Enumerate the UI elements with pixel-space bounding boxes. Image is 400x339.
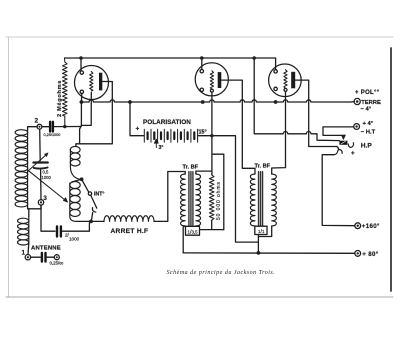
pin V3 grid bottom bbox=[284, 88, 287, 91]
wire bus end to TERRE bbox=[351, 101, 354, 103]
capacitor C2 variable 0,5/1000 bbox=[33, 161, 47, 163]
plate V1 bar bbox=[99, 73, 102, 91]
node choke left junction bbox=[89, 220, 93, 224]
resistor R1 2 Megohms grid leak bbox=[63, 58, 68, 127]
node L3-L4-switch junction bbox=[80, 177, 84, 181]
node bus-V1 filament junction bbox=[80, 100, 84, 104]
capacitor C1 grid condenser 0,25/1000 bbox=[50, 122, 53, 132]
node junction top rail to V2 filament bbox=[200, 56, 204, 60]
coil L4 grid coil bbox=[70, 179, 82, 221]
wire jack feed from top rail with hops bbox=[254, 58, 339, 141]
coil L3 tickler bbox=[70, 144, 81, 180]
wire C2 to terminal 3 bbox=[40, 170, 42, 200]
battery POLARISATION cells bbox=[144, 129, 197, 142]
wire V2 filament drop bbox=[201, 58, 203, 70]
switch INT lever and contact bbox=[91, 195, 97, 212]
svg-text:INT°: INT° bbox=[94, 192, 104, 198]
pin V2 filament bottom bbox=[200, 88, 203, 91]
node battery wire crosses grid2 bbox=[210, 134, 213, 137]
transformer TR1 Tr.BF core bbox=[188, 171, 194, 226]
jack HP lower contact hook bbox=[337, 147, 339, 150]
svg-text:3: 3 bbox=[43, 195, 47, 202]
wire V3 grid down to TR2 secondary bbox=[272, 91, 286, 174]
resistor R2 50000 ohms bbox=[209, 175, 214, 221]
svg-text:2 Mégohms: 2 Mégohms bbox=[57, 80, 63, 117]
coil L1 antenna secondary bbox=[15, 130, 28, 207]
wire L1 bottom to terminal 3 bbox=[28, 205, 41, 209]
pin V1 filament top bbox=[80, 71, 83, 74]
wire choke to TR1 primary top bbox=[154, 172, 185, 222]
triode V2 envelope bbox=[195, 63, 228, 96]
svg-text:TERRE: TERRE bbox=[361, 100, 381, 106]
svg-text:1000: 1000 bbox=[42, 175, 52, 180]
svg-text:POLARISATION: POLARISATION bbox=[143, 119, 191, 126]
wire L2 top lead bbox=[28, 209, 30, 217]
svg-text:0,25/1000: 0,25/1000 bbox=[44, 133, 61, 137]
wire L4 bottom to node bbox=[77, 220, 105, 222]
svg-text:1: 1 bbox=[22, 250, 26, 257]
wire R2 bottom and TR1 secondary bottom bbox=[196, 220, 224, 229]
svg-text:2: 2 bbox=[35, 118, 39, 125]
wire earth bus y=102 with hops bbox=[81, 100, 350, 102]
node junction top rail to V1 filament bbox=[79, 56, 83, 60]
pin V3 filament bottom bbox=[274, 87, 277, 90]
svg-text:+: + bbox=[136, 126, 140, 133]
svg-text:Schéma de principe du Jackson: Schéma de principe du Jackson Trois. bbox=[167, 270, 276, 276]
pin V1 filament bottom bbox=[80, 90, 83, 93]
svg-text:+: + bbox=[351, 150, 355, 157]
grid V2 zigzag bbox=[210, 71, 213, 89]
wire V3 filament drop bbox=[275, 58, 277, 70]
node R1 bottom junction bbox=[63, 125, 66, 128]
transformer TR2 secondary winding bbox=[272, 174, 277, 226]
wire terminal2 down to variable capacitor bbox=[39, 129, 42, 161]
terminal 2 binding post bbox=[37, 124, 42, 129]
plate V3 bar bbox=[291, 72, 295, 89]
svg-text:3°: 3° bbox=[159, 145, 164, 151]
wire battery plus15 to TR2 bottom riser bbox=[198, 136, 259, 242]
wire terminal1 to C4 bbox=[31, 256, 41, 258]
transformer TR2 Tr.BF core bbox=[258, 171, 264, 226]
wire switch to bottom node bbox=[91, 213, 92, 222]
switch INT pivot bbox=[82, 179, 89, 192]
wire HT80 rail bbox=[183, 252, 355, 254]
svg-text:ANTENNE: ANTENNE bbox=[31, 246, 61, 252]
svg-text:0,5: 0,5 bbox=[43, 170, 49, 175]
wire V1 filament drop bbox=[80, 58, 82, 71]
wire TR1 secondary top to grid2 bbox=[196, 171, 212, 174]
node bus-battery junction bbox=[128, 100, 132, 104]
ratio box TR1 1/3,5 bbox=[186, 226, 200, 235]
node junction top rail to jack feed bbox=[252, 56, 256, 60]
jack HP plug body bbox=[339, 141, 347, 145]
pin V2 filament top bbox=[200, 70, 203, 73]
wire terminal3 down to C3 bbox=[41, 205, 55, 231]
wire grid node to grid condenser bbox=[54, 126, 81, 128]
svg-text:− 4°: − 4° bbox=[361, 106, 372, 112]
transformer TR2 primary winding bbox=[250, 174, 255, 226]
svg-text:15°: 15° bbox=[199, 130, 207, 136]
wire +4 terminal to jack tip bbox=[323, 127, 354, 135]
grid V3 zigzag bbox=[284, 70, 287, 89]
wire branch grid2 node to TR1 secondary bottom riser bbox=[212, 154, 224, 229]
svg-text:+ 4°: + 4° bbox=[363, 121, 374, 127]
wire C4 to antenna post bbox=[47, 256, 54, 258]
svg-text:+160°: +160° bbox=[362, 223, 380, 230]
svg-text:0,25/00: 0,25/00 bbox=[50, 261, 64, 266]
plate V2 bar bbox=[218, 72, 222, 88]
pin V3 filament top bbox=[274, 70, 277, 73]
capacitor C3 2/1000 bbox=[57, 226, 61, 236]
wire grid node down to tickler node bbox=[80, 126, 81, 144]
arrow jack tip bbox=[342, 135, 346, 139]
terminal +80 bbox=[355, 251, 361, 257]
wire V2 grid down to R2 top bbox=[211, 92, 213, 175]
inductor ARRET H.F choke bbox=[104, 216, 154, 222]
wire V1 plate to tickler (feedback) bbox=[76, 82, 112, 147]
terminal 3 binding post bbox=[38, 200, 43, 205]
arrow coupling adjust toward L4 bbox=[29, 171, 65, 200]
svg-text:− H.T: − H.T bbox=[361, 130, 376, 136]
svg-text:H.P: H.P bbox=[361, 142, 373, 149]
wire V1 grid down to grid node bbox=[81, 93, 91, 126]
wire filament top rail bbox=[65, 57, 276, 59]
ratio box TR2 1/1 bbox=[255, 226, 267, 234]
wire L2 bottom to terminal 1 bbox=[27, 243, 30, 255]
coil L2 antenna primary bbox=[18, 217, 29, 245]
wire bus to battery plus bbox=[130, 102, 144, 136]
transformer TR1 secondary winding bbox=[196, 174, 201, 226]
svg-text:1000: 1000 bbox=[69, 237, 80, 242]
pin V2 grid bottom bbox=[210, 89, 213, 92]
wire jack lower contact to +160 terminal bbox=[322, 155, 355, 226]
svg-text:Tr. BF: Tr. BF bbox=[255, 163, 271, 169]
wire V3 plate down to jack lower contact bbox=[295, 80, 337, 146]
terminal +4 -HT bbox=[354, 124, 360, 130]
node bus-V3 filament junction bbox=[274, 100, 278, 104]
wire V2 plate to TR2 primary bbox=[221, 80, 255, 174]
terminal +160 bbox=[355, 223, 361, 229]
wire V1 filament bottom to bus and grid node bbox=[80, 94, 82, 127]
wire terminal 2 to L1 top bbox=[28, 127, 37, 130]
triode V3 envelope bbox=[269, 64, 302, 97]
wire TR2 winding bottoms to rail bbox=[255, 226, 272, 253]
node rail TR2 junction bbox=[257, 251, 261, 255]
arrow of C2 bbox=[28, 155, 47, 172]
svg-text:ARRET H.F: ARRET H.F bbox=[111, 228, 149, 235]
terminal antenna second post bbox=[54, 255, 59, 260]
svg-text:50 000 ohms: 50 000 ohms bbox=[216, 181, 222, 220]
svg-text:+ 80°: + 80° bbox=[362, 251, 378, 258]
wire C3 to choke node bbox=[62, 221, 91, 231]
svg-text:Tr. BF: Tr. BF bbox=[183, 164, 199, 170]
grid V1 zigzag bbox=[90, 72, 93, 92]
wire C1 to terminal 2 bbox=[42, 126, 49, 128]
transformer TR1 primary winding bbox=[181, 174, 186, 226]
node bus-V2 filament junction bbox=[201, 100, 205, 104]
jack HP upper spring contact bbox=[348, 143, 353, 148]
capacitor C4 antenna series 0,25 bbox=[42, 253, 46, 262]
terminal 1 antenna post bbox=[25, 255, 30, 260]
wire TR1 primary bottom to HT80 rail bbox=[183, 226, 185, 253]
triode V1 envelope bbox=[75, 66, 109, 100]
svg-text:+ POL°°: + POL°° bbox=[355, 90, 380, 96]
terminal TERRE bbox=[354, 98, 360, 104]
battery 3V tap arrow bbox=[154, 139, 158, 147]
